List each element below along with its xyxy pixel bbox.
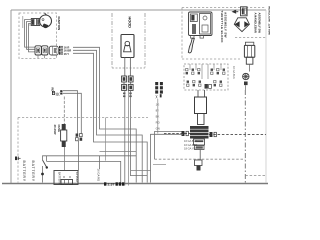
battery label inner (vertical) [58,172,62,184]
thumbwarmer pad [234,18,249,32]
headlight lead right [129,58,131,77]
svg-text:2.37: 2.37 [108,183,115,186]
wire tail harness 1 [155,132,182,160]
chassis dashed enclosure top [18,117,148,119]
svg-text:A HANDLEBAR: A HANDLEBAR [254,13,258,33]
ignition switch body [40,13,52,28]
splice ticks left [123,93,125,98]
hood boundary bottom [112,67,145,69]
border frame right [265,10,267,183]
wire branch drop [46,156,48,162]
page caption [104,182,124,186]
svg-text:16 GA RED: 16 GA RED [184,143,198,147]
coil connector glyphs left [182,131,189,136]
svg-text:16 GA RD: 16 GA RD [97,169,101,182]
fuse holder lower cap [246,57,253,64]
svg-text:12 VOLT: 12 VOLT [75,172,79,183]
svg-text:HOOD: HOOD [128,17,132,29]
svg-text:8Y: 8Y [156,109,160,113]
headlight dimmer label (vertical 2 lines) [254,6,272,35]
wire stub below connector B [44,55,46,58]
battery enclosure tick [15,157,21,161]
border frame left [10,10,12,183]
coil connector block [190,126,209,139]
dimmer lever icon [232,10,239,14]
chassis boundary right (dash-dot) [244,90,246,183]
svg-text:HEADLIGHT 12V 60W: HEADLIGHT 12V 60W [268,6,270,35]
chassis dashed enclosure left [17,118,19,183]
circuit breaker wire [43,156,51,183]
terminal junction blob [205,84,212,89]
terminal pins bottom row [187,81,222,87]
wire headlight ground [128,90,130,185]
dimmer switch block [241,7,248,16]
wire key pin 4 stub [29,24,31,26]
ignition switch connector [31,19,39,26]
wire harness corner [47,161,121,185]
magneto wire labels (vertical) [156,103,160,131]
ignition switch dashed enclosure [19,13,57,59]
terminal block internal wires [190,64,221,79]
wire hood feed drop [105,118,107,161]
wire ignition feed 3 [73,53,147,182]
wire label 2M [156,94,162,98]
wire terminal glyphs row 2 [59,49,71,53]
border frame top [11,9,266,11]
throttle lever [188,38,194,53]
svg-text:ASSEMBLY SW: ASSEMBLY SW [257,13,261,34]
hood boundary right (dash-dot) [144,13,146,68]
junction dot breaker [46,166,48,168]
svg-text:BATTERY: BATTERY [31,161,35,182]
splice ticks right [129,93,131,98]
spark plug lead [199,150,201,161]
headlight lead left [124,58,126,77]
battery wire label (vertical) [97,169,101,182]
headlight bulb [124,41,131,52]
connector mate [49,46,58,55]
hood boundary left (dash-dot) [111,13,113,68]
wire fuse feed [63,97,65,125]
wire B feed 1 [63,91,78,134]
bullet connector right pair [128,76,133,90]
wire key pin 2 [27,22,35,50]
coil wire labels [184,139,198,151]
battery label outer 2 (vertical) [31,161,35,182]
wire battery feed single [78,141,80,171]
wire fuse lead [249,64,251,71]
terminal pins top row [186,69,225,75]
chassis dashed corner bottom right [245,175,266,177]
battery box [54,171,78,185]
wire link mid [131,170,151,172]
splice connectors battery feed [76,134,83,141]
ignition switch label (vertical) [57,17,61,32]
svg-text:THROTTLE BLOCK: THROTTLE BLOCK [220,11,224,44]
wire tail dashed run [155,158,246,160]
battery label outer (vertical) [22,161,26,182]
svg-text:ASSEMBLY SW: ASSEMBLY SW [224,12,228,38]
svg-text:16 GA BLK: 16 GA BLK [232,66,236,79]
handlebar dashed enclosure [182,8,266,60]
wire key pin 3 [29,24,36,52]
wire terminal glyphs row 3 [59,52,69,56]
accessory plug [243,73,249,85]
wire accessory down [245,85,247,90]
wire stub mid [153,163,166,165]
ignition coil body [195,97,207,125]
junction dot battery [41,173,44,176]
handlebar dashed bottom right segment [235,37,266,39]
wire aux run [100,150,137,152]
wire coil primary dashed left [164,133,190,135]
wire stub below connector A [37,55,39,58]
ignition coil prong 2 [204,90,206,97]
junction B terminal [51,88,63,98]
wire fuse to battery [64,147,66,171]
svg-text:18 GA YEL: 18 GA YEL [184,147,197,151]
wire battery bus [50,155,136,157]
battery symbol [61,177,73,185]
handlebar assembly label (vertical 2 lines) [220,11,228,44]
wire ignition feed 2 [73,50,142,182]
connector half A [35,46,41,55]
wire ignition feed 1 [73,47,136,182]
wire stub label [22,16,24,28]
wire headlight low beam [124,90,126,185]
battery polarity label (vertical) [75,172,79,183]
bullet connector left pair [122,76,127,90]
svg-text:BATTERY: BATTERY [22,161,26,182]
coil connector glyphs right [210,132,217,137]
wire tail harness 2 [151,134,184,182]
ignition coil prong 1 [197,90,199,97]
hood label (vertical) [128,17,132,29]
connector half B [42,46,48,55]
coil terminal stack [194,139,205,150]
magneto connector pair [155,82,163,94]
border frame bottom [2,183,268,185]
svg-text:16 Y: 16 Y [64,52,70,56]
wire coil secondary dashed right [209,134,266,136]
wire key pin 1 [25,20,35,48]
svg-text:16 GA BLK: 16 GA BLK [184,139,197,143]
headlight housing [121,35,134,58]
spark plug [195,160,203,171]
wire terminal glyphs row 1 [59,46,69,50]
wire tail harness 3 [130,90,147,175]
wire magneto drop [157,99,159,134]
svg-text:IGNITION: IGNITION [57,17,61,32]
svg-text:)((: )(( [56,91,61,96]
wire battery positive [99,156,101,169]
terminal block side label (vertical) [232,66,236,79]
terminal block housing [184,64,228,90]
fuse holder body [244,42,254,57]
throttle block housing [189,12,213,38]
fuse label (vertical) [53,125,61,135]
wire B feed 2 [63,93,81,133]
fuse element [61,124,67,147]
svg-text:20 AMP: 20 AMP [53,125,57,135]
